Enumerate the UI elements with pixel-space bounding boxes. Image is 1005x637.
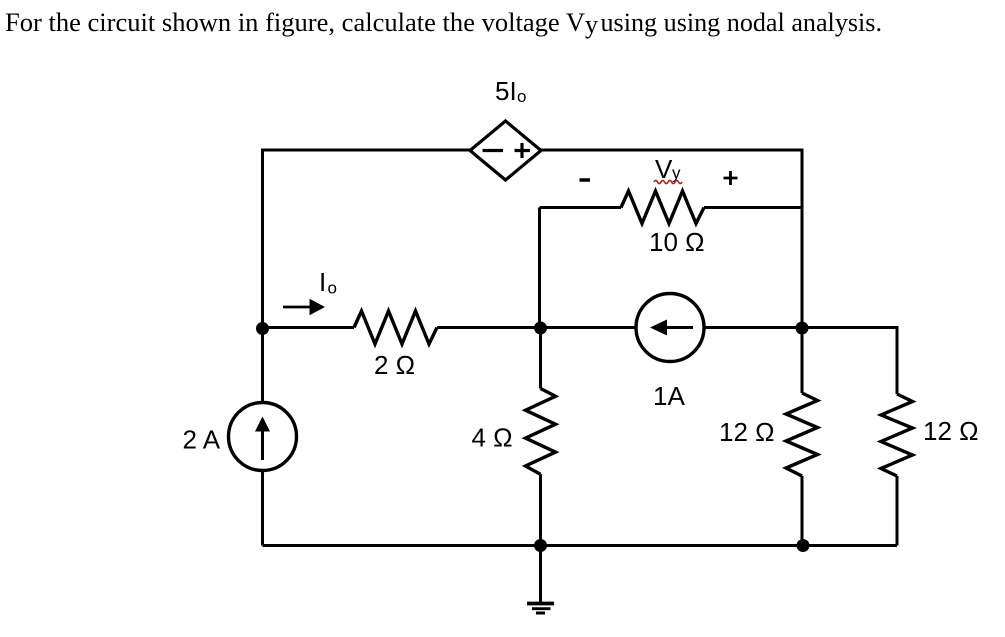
svg-text:I: I: [319, 267, 326, 297]
wire: 4ohm bottom to bottom wire: [539, 474, 542, 545]
wire: 10ohm right horizontal to right vertical: [704, 206, 802, 209]
resistor R4 12ohm right: [881, 394, 913, 476]
2A arrow: [255, 417, 270, 461]
wire: 10ohm left horizontal: [540, 206, 622, 209]
svg-text:y: y: [585, 10, 598, 39]
wire: far right vertical below 12ohm to bottom: [896, 476, 899, 546]
node E dot bottom right: [797, 539, 810, 552]
svg-text:2 A: 2 A: [183, 425, 221, 455]
wire: top-left from left node up and right to dependent source: [263, 150, 471, 403]
svg-text:using using nodal analysis.: using using nodal analysis.: [601, 8, 883, 37]
svg-text:1A: 1A: [653, 381, 685, 411]
svg-text:4 Ω: 4 Ω: [472, 423, 513, 453]
resistor R1 2ohm: [354, 311, 437, 344]
ground stem: [539, 546, 542, 603]
resistor R3 12ohm left: [786, 393, 818, 476]
current source I2 1A: [636, 294, 704, 362]
wire: 4ohm branch from center node down: [539, 328, 542, 389]
dependent source U1 5Io diamond: [470, 121, 541, 180]
svg-text:12 Ω: 12 Ω: [719, 417, 775, 447]
plus sign right of Vy: [724, 171, 738, 185]
label Io with arrow: [319, 267, 337, 298]
svg-text:o: o: [517, 87, 526, 106]
node B dot center: [534, 322, 547, 335]
diamond minus: [483, 149, 504, 152]
resistor R2 10ohm: [621, 191, 704, 224]
wire: middle from 2ohm to 1A source: [437, 326, 636, 329]
svg-text:5I: 5I: [495, 76, 517, 106]
svg-text:For the circuit shown in figur: For the circuit shown in figure, calcula…: [5, 8, 585, 37]
node D dot bottom center: [534, 539, 547, 552]
wire: left vertical below 2A source to bottom: [261, 471, 264, 546]
current source I1 2A: [229, 403, 297, 471]
Io arrow: [283, 299, 325, 315]
label 5Io: [495, 76, 526, 106]
wire: right vertical below 12ohm to bottom: [801, 476, 804, 546]
wire: middle horizontal left segment node A to 2ohm resistor: [263, 326, 355, 329]
node C dot right: [796, 322, 809, 335]
1A arrow: [650, 320, 693, 336]
wire: vertical from 10ohm loop down to center node: [538, 208, 541, 328]
svg-text:2 Ω: 2 Ω: [374, 350, 415, 380]
wire: middle from 1A source to right, through node B to far-right branch: [704, 328, 897, 395]
svg-text:12 Ω: 12 Ω: [923, 416, 979, 446]
diamond plus: [515, 143, 531, 158]
label Vy: [655, 154, 681, 184]
minus sign left of Vy: [580, 178, 591, 182]
svg-text:o: o: [328, 279, 337, 298]
svg-text:V: V: [655, 154, 673, 184]
node A dot: [256, 322, 269, 335]
ground: [527, 604, 554, 614]
wire: top-right from dependent source to right corner and down to 12ohm R3: [541, 150, 802, 393]
title text: [5, 8, 882, 39]
resistor R5 4ohm: [526, 389, 556, 475]
svg-text:10 Ω: 10 Ω: [649, 227, 705, 257]
red squiggle under Vy: [654, 180, 682, 183]
wire: bottom horizontal: [263, 544, 898, 547]
